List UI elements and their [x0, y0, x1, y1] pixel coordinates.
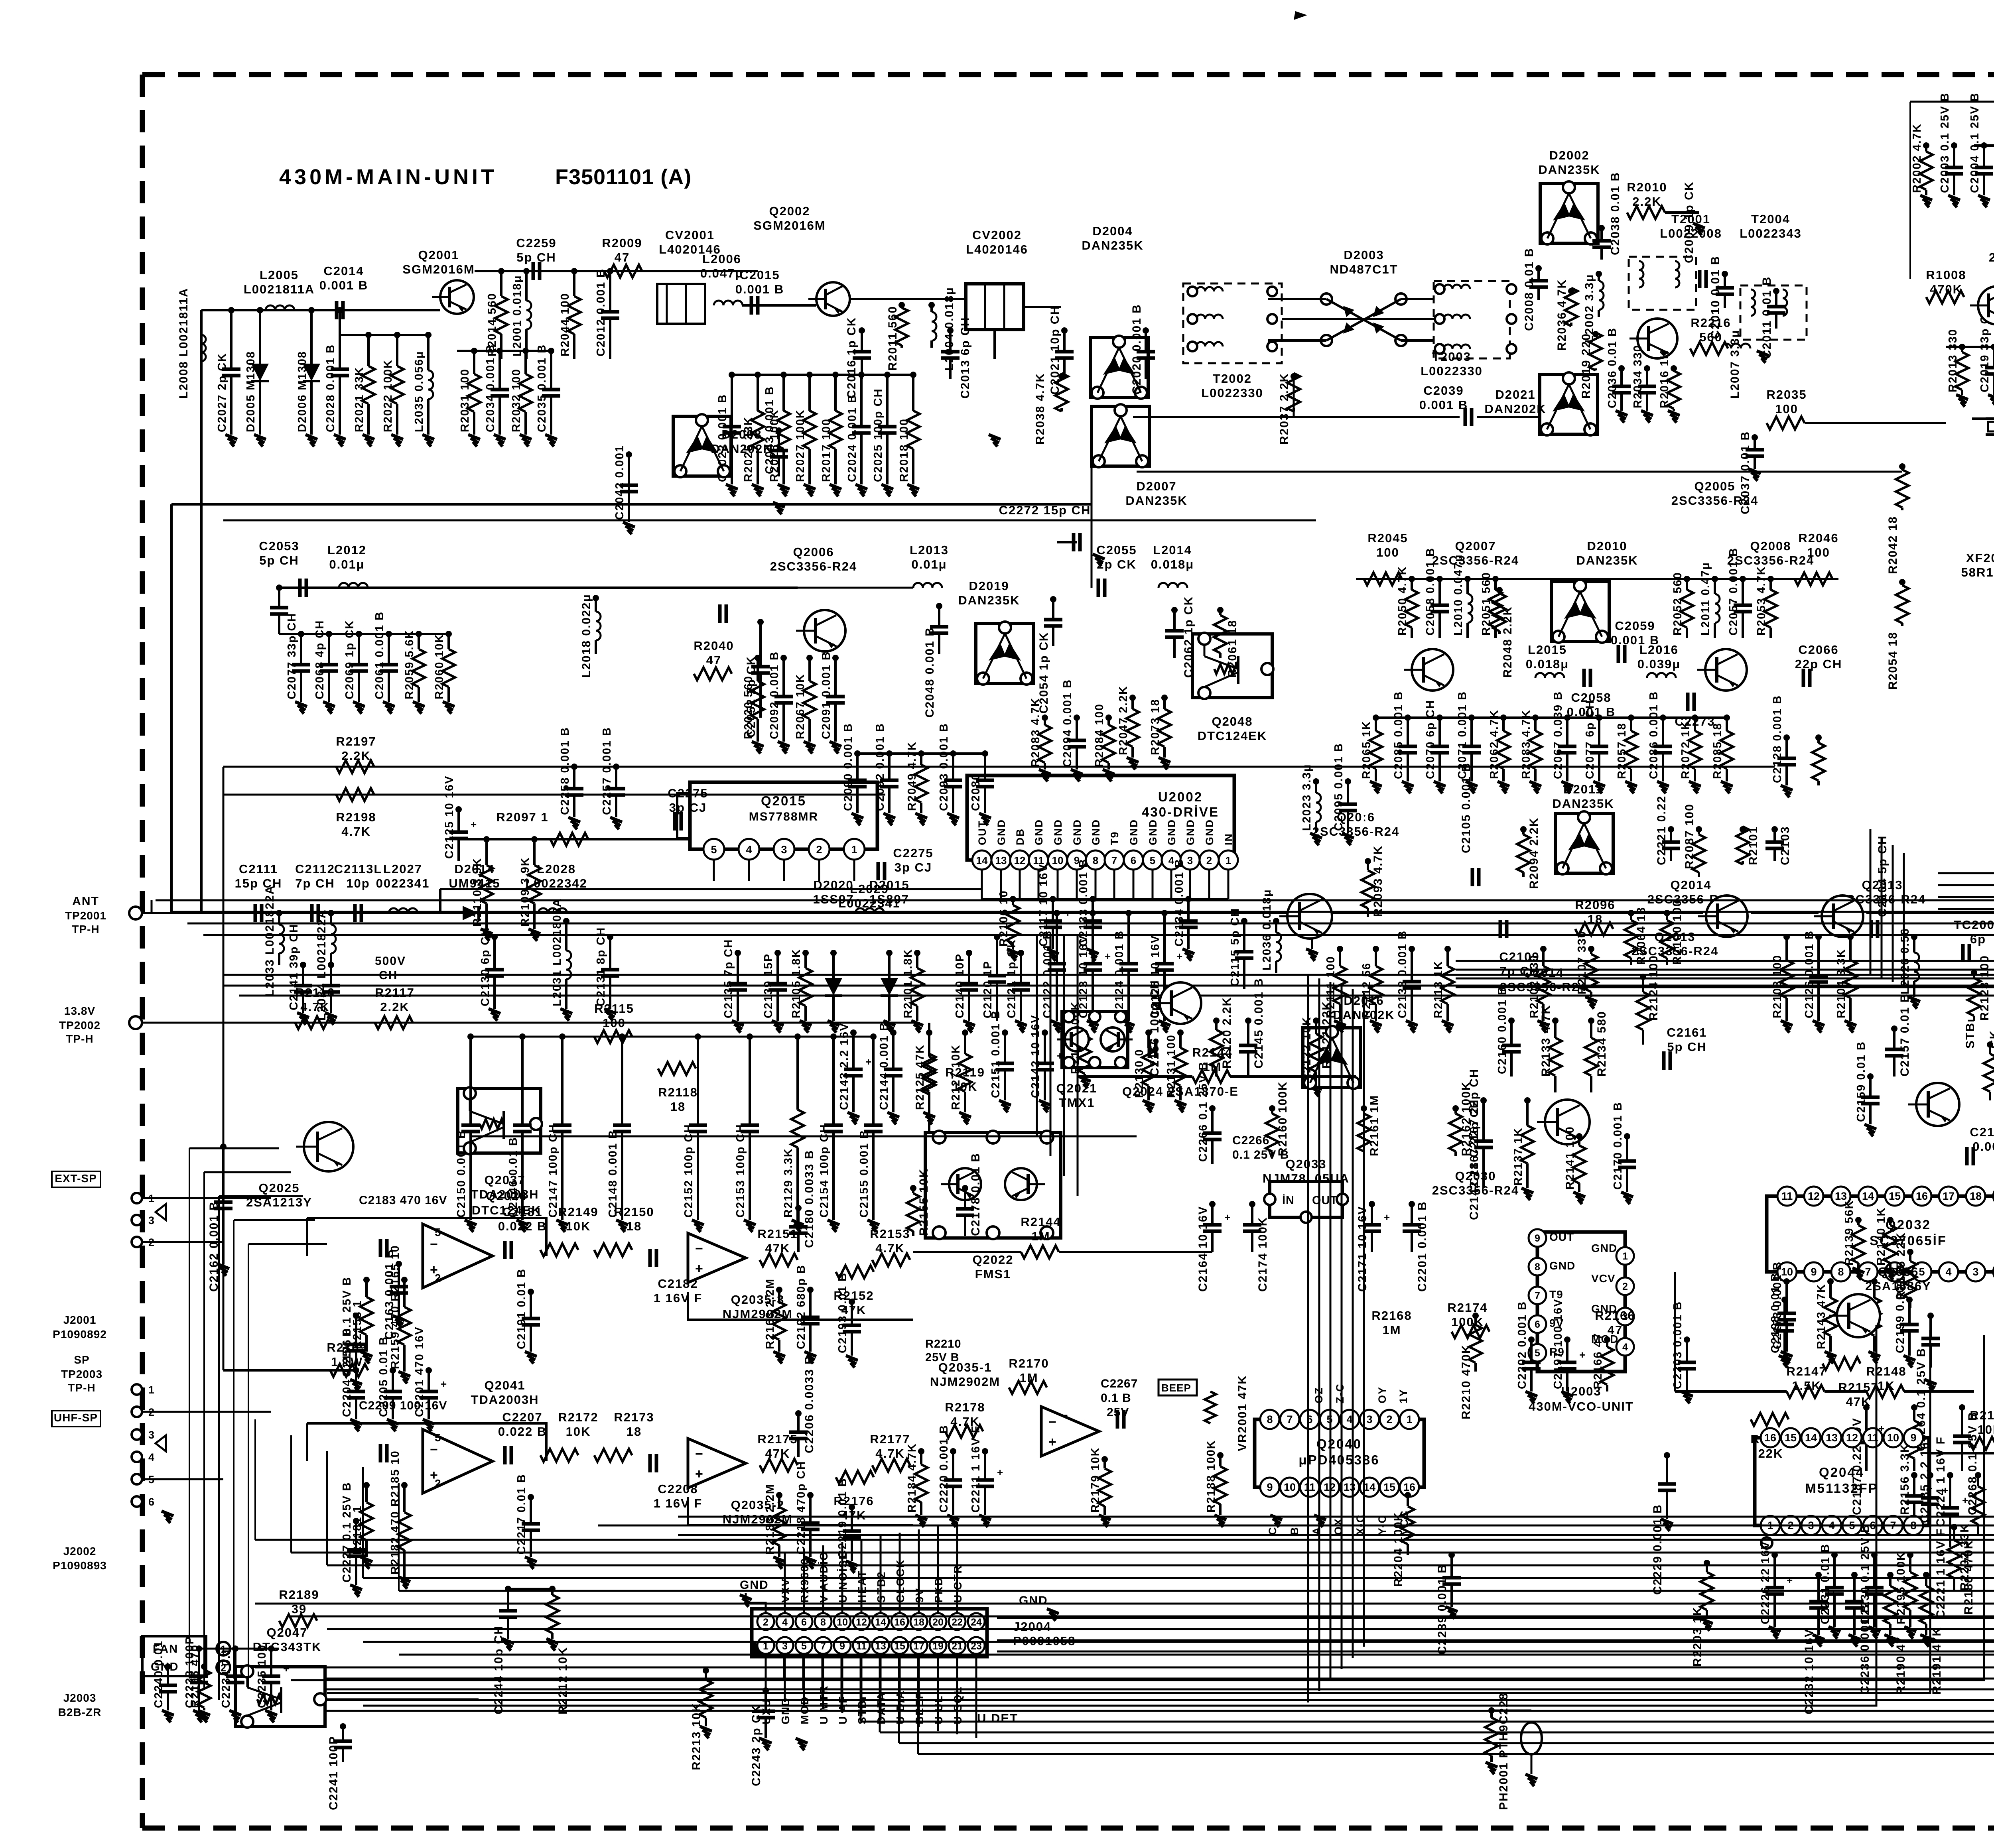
svg-text:R2034 330: R2034 330 [1631, 344, 1644, 408]
svg-text:C2014: C2014 [323, 264, 364, 278]
svg-text:0.018μ: 0.018μ [1151, 557, 1194, 571]
svg-text:TDA2003H: TDA2003H [471, 1393, 539, 1407]
svg-text:M51132FP: M51132FP [1805, 1481, 1878, 1496]
svg-text:GND: GND [1071, 819, 1083, 845]
svg-text:C2057 0.001 B: C2057 0.001 B [1727, 547, 1740, 636]
svg-text:4: 4 [1945, 1266, 1951, 1278]
svg-text:7: 7 [1111, 854, 1117, 866]
svg-text:R2144: R2144 [1021, 1215, 1061, 1229]
svg-text:R2002 4.7K: R2002 4.7K [1911, 123, 1923, 193]
svg-text:2SC3356-R24: 2SC3356-R24 [1727, 553, 1814, 567]
svg-text:430-DRİVE: 430-DRİVE [1142, 805, 1219, 819]
svg-text:R2166: R2166 [1595, 1309, 1635, 1323]
svg-text:DAN235K: DAN235K [1538, 163, 1600, 177]
svg-text:−: − [1048, 1415, 1056, 1430]
svg-text:Q2022: Q2022 [972, 1253, 1013, 1267]
svg-text:100: 100 [603, 1016, 626, 1030]
svg-text:2: 2 [816, 844, 822, 856]
svg-text:C2025 100p CH: C2025 100p CH [872, 388, 885, 482]
svg-text:Q2037: Q2037 [484, 1173, 525, 1187]
svg-text:Z-C: Z-C [1334, 1383, 1346, 1403]
svg-text:9: 9 [1910, 1432, 1916, 1444]
svg-text:R2009: R2009 [602, 236, 642, 250]
svg-text:15: 15 [1383, 1481, 1395, 1493]
svg-text:D2002: D2002 [1549, 148, 1589, 162]
svg-text:L2014: L2014 [1153, 543, 1192, 557]
svg-text:6: 6 [801, 1617, 807, 1628]
svg-text:−: − [430, 1237, 438, 1252]
svg-text:R2161 1M: R2161 1M [1368, 1095, 1381, 1156]
svg-text:ANT: ANT [72, 895, 99, 908]
svg-text:2SC3356-R24: 2SC3356-R24 [770, 559, 857, 573]
svg-text:R2072 1K: R2072 1K [1679, 720, 1692, 779]
svg-text:1 16V F: 1 16V F [654, 1496, 703, 1510]
svg-text:TDA2003H: TDA2003H [471, 1187, 539, 1201]
svg-text:3: 3 [1366, 1413, 1372, 1425]
svg-text:C2053: C2053 [259, 539, 299, 553]
svg-text:25V B: 25V B [925, 1351, 960, 1364]
svg-text:7: 7 [1287, 1413, 1293, 1425]
svg-text:R2097 1: R2097 1 [496, 810, 548, 824]
svg-text:L2005: L2005 [260, 268, 299, 282]
svg-text:SGM2016M: SGM2016M [402, 262, 475, 276]
svg-text:+: + [695, 1261, 703, 1276]
svg-text:L0022330: L0022330 [1460, 374, 1468, 375]
svg-text:R2144: R2144 [1192, 1045, 1232, 1059]
svg-text:C2182: C2182 [658, 1277, 698, 1291]
svg-text:C2150 0.001 B: C2150 0.001 B [455, 1130, 468, 1218]
svg-text:C2142 10 16V: C2142 10 16V [1029, 1015, 1042, 1098]
svg-text:L2018 0.022μ: L2018 0.022μ [580, 594, 593, 678]
svg-text:R2191 47K: R2191 47K [1930, 1627, 1943, 1694]
svg-text:R2016 1K: R2016 1K [1658, 350, 1671, 408]
svg-text:C2111: C2111 [239, 862, 278, 876]
svg-text:Q2014: Q2014 [1670, 878, 1711, 892]
svg-text:10: 10 [837, 1617, 848, 1628]
svg-text:R2150: R2150 [614, 1205, 654, 1219]
svg-text:3: 3 [148, 1214, 154, 1226]
svg-text:C2220 0.001 B: C2220 0.001 B [938, 1425, 950, 1513]
svg-text:C2035 0.001 B: C2035 0.001 B [536, 344, 548, 432]
svg-text:C2154 100p CH: C2154 100p CH [818, 1124, 831, 1218]
svg-text:C2128 0.001 B: C2128 0.001 B [1771, 695, 1784, 783]
svg-text:R2011 560: R2011 560 [886, 306, 899, 371]
svg-text:DB: DB [1014, 828, 1026, 845]
svg-text:B2B-ZR: B2B-ZR [58, 1706, 102, 1718]
svg-text:Q2015: Q2015 [761, 793, 806, 808]
svg-text:R2133 4.7K: R2133 4.7K [1539, 1005, 1553, 1077]
svg-text:0.039μ: 0.039μ [1637, 657, 1681, 671]
svg-text:R2046: R2046 [1798, 531, 1838, 545]
svg-text:R2060 10K: R2060 10K [433, 634, 446, 699]
svg-text:C2113L: C2113L [334, 862, 382, 876]
svg-text:500V: 500V [375, 955, 406, 968]
svg-text:Q2002: Q2002 [769, 204, 810, 218]
svg-text:C2145 0.001 B: C2145 0.001 B [1252, 978, 1265, 1069]
svg-text:18: 18 [627, 1219, 642, 1233]
svg-text:Q2048: Q2048 [1212, 714, 1253, 728]
svg-text:C2198 0.01 B: C2198 0.01 B [1769, 1272, 1782, 1353]
svg-text:C2069 1p CK: C2069 1p CK [343, 620, 356, 699]
svg-text:+: + [1224, 1211, 1230, 1223]
svg-text:C2209 100 16V: C2209 100 16V [359, 1399, 447, 1412]
svg-text:8: 8 [820, 1617, 826, 1628]
svg-text:CV2001: CV2001 [665, 228, 715, 242]
svg-text:A: A [1310, 1527, 1322, 1535]
svg-text:+: + [1579, 1349, 1585, 1361]
svg-text:+: + [1176, 950, 1182, 962]
svg-text:Q2047: Q2047 [266, 1626, 307, 1639]
svg-text:T2004: T2004 [1751, 212, 1790, 226]
svg-text:R2093 4.7K: R2093 4.7K [1371, 845, 1385, 917]
svg-text:R2115: R2115 [594, 1002, 634, 1016]
svg-text:R2166 47: R2166 47 [1592, 1332, 1604, 1389]
svg-text:0.001: 0.001 [1972, 1140, 1994, 1153]
svg-text:C2152 100p CH: C2152 100p CH [682, 1124, 695, 1218]
svg-text:C2193 0.01 B: C2193 0.01 B [836, 1272, 849, 1353]
svg-text:Q20ː6: Q20ː6 [1337, 810, 1375, 824]
svg-text:1: 1 [1226, 854, 1231, 866]
svg-text:DAN235K: DAN235K [1552, 797, 1614, 811]
svg-text:R2210 470K: R2210 470K [1460, 1344, 1473, 1419]
svg-text:C2221 0.22: C2221 0.22 [1655, 795, 1668, 865]
svg-text:L2033 L0021822A: L2033 L0021822A [263, 885, 276, 997]
svg-text:6: 6 [148, 1496, 154, 1508]
svg-text:L2028: L2028 [537, 862, 576, 876]
svg-text:10K: 10K [1978, 1423, 1994, 1437]
svg-text:2.2K: 2.2K [341, 749, 370, 763]
svg-text:R2168: R2168 [1371, 1309, 1412, 1323]
svg-text:DAN235K: DAN235K [1125, 494, 1187, 508]
svg-text:C2234 0.1: C2234 0.1 [220, 1647, 233, 1708]
svg-text:Q2035-2: Q2035-2 [731, 1498, 785, 1512]
svg-text:100: 100 [1807, 545, 1830, 559]
svg-text:25V: 25V [1107, 1406, 1129, 1419]
svg-text:R2109 3.9K: R2109 3.9K [519, 857, 532, 927]
svg-text:C2125 10 16V: C2125 10 16V [443, 775, 456, 859]
svg-text:R2044 100: R2044 100 [559, 293, 571, 356]
svg-text:5p CH: 5p CH [1667, 1040, 1707, 1054]
svg-text:C2092 0.001 B: C2092 0.001 B [768, 651, 781, 739]
svg-text:22p CH: 22p CH [1795, 657, 1842, 671]
svg-text:R2051 560: R2051 560 [1480, 572, 1493, 636]
svg-text:U DET: U DET [977, 1711, 1018, 1725]
svg-text:10: 10 [1052, 854, 1064, 866]
svg-text:U2002: U2002 [1158, 789, 1203, 804]
svg-text:STBı: STBı [1964, 1018, 1977, 1049]
svg-text:NJM2902M: NJM2902M [930, 1375, 1000, 1389]
svg-text:11: 11 [1304, 1481, 1316, 1493]
svg-text:0.018μ: 0.018μ [1526, 657, 1569, 671]
svg-text:R2178: R2178 [945, 1400, 985, 1414]
svg-text:+: + [695, 1466, 703, 1482]
svg-text:R2197: R2197 [336, 734, 376, 748]
svg-text:DAN202K: DAN202K [1484, 402, 1546, 416]
svg-text:L0022330: L0022330 [1201, 386, 1263, 400]
svg-text:R2147: R2147 [1786, 1364, 1827, 1378]
svg-text:C2024 0.001 B: C2024 0.001 B [846, 394, 859, 482]
svg-text:0.1 B: 0.1 B [1101, 1391, 1131, 1405]
svg-text:R2010: R2010 [1627, 180, 1667, 194]
svg-text:DTC343TK: DTC343TK [253, 1640, 322, 1654]
svg-text:DAN235K: DAN235K [1576, 553, 1638, 567]
svg-text:C: C [1267, 1527, 1279, 1535]
svg-text:R2182 470 R2185 10: R2182 470 R2185 10 [389, 1450, 402, 1574]
svg-text:C2148 0.001 B: C2148 0.001 B [607, 1130, 619, 1218]
svg-text:C2166: C2166 [1970, 1125, 1994, 1139]
svg-text:−: − [430, 1442, 438, 1457]
svg-text:47: 47 [706, 653, 721, 667]
svg-text:C2103: C2103 [1779, 826, 1792, 865]
svg-text:P1090893: P1090893 [53, 1559, 107, 1572]
svg-text:8: 8 [1093, 854, 1098, 866]
svg-text:Q2033: Q2033 [1285, 1157, 1326, 1171]
svg-text:C2174 100K: C2174 100K [1256, 1217, 1269, 1292]
svg-text:L2027: L2027 [383, 862, 422, 876]
svg-text:100: 100 [1376, 545, 1399, 559]
svg-text:D2007: D2007 [1136, 479, 1176, 493]
svg-text:1Y: 1Y [1397, 1389, 1409, 1403]
svg-text:R2192: R2192 [1970, 1408, 1994, 1422]
svg-text:R2189: R2189 [279, 1588, 319, 1602]
svg-text:14: 14 [1805, 1432, 1817, 1444]
svg-text:C2011 0.01 B: C2011 0.01 B [1760, 276, 1773, 359]
svg-text:2SC2714Y: 2SC2714Y [1989, 250, 1994, 264]
svg-text:C2230 0.1 25V B: C2230 0.1 25V B [1859, 1524, 1872, 1624]
svg-text:R2172: R2172 [558, 1410, 598, 1424]
svg-text:GND: GND [1166, 819, 1178, 845]
svg-text:C2080: C2080 [969, 773, 982, 811]
svg-text:R2139 56K: R2139 56K [1843, 1200, 1856, 1265]
svg-text:C2240 0.01: C2240 0.01 [152, 1640, 165, 1708]
svg-text:L2011 0.47μ: L2011 0.47μ [1699, 562, 1712, 636]
svg-text:C2275: C2275 [893, 846, 933, 860]
svg-text:2SC3356-R24: 2SC3356-R24 [1312, 825, 1399, 838]
svg-text:R2027 100K: R2027 100K [794, 409, 807, 482]
svg-text:5: 5 [1919, 1266, 1925, 1278]
svg-text:C2275: C2275 [668, 786, 708, 800]
svg-text:C2091 0.001 B: C2091 0.001 B [820, 651, 833, 739]
svg-text:C2159 0.01 B: C2159 0.01 B [1855, 1041, 1868, 1122]
svg-text:R2085 18: R2085 18 [1711, 722, 1724, 779]
svg-text:R2148: R2148 [1866, 1364, 1906, 1378]
svg-text:3: 3 [1972, 1266, 1978, 1278]
svg-text:C2042 0.001: C2042 0.001 [613, 445, 626, 520]
svg-text:5: 5 [711, 844, 717, 856]
svg-text:100K: 100K [1451, 1315, 1484, 1329]
svg-text:0.022 B: 0.022 B [498, 1425, 547, 1439]
svg-text:C2183 470 16V: C2183 470 16V [359, 1194, 447, 1207]
svg-text:DAN235K: DAN235K [958, 593, 1020, 607]
svg-text:R2047 2.2K: R2047 2.2K [1117, 685, 1130, 755]
svg-text:2: 2 [435, 1272, 441, 1284]
svg-text:R2013 330: R2013 330 [1947, 329, 1959, 392]
svg-text:OY: OY [1376, 1386, 1388, 1403]
svg-text:R2137 1K: R2137 1K [1512, 1127, 1525, 1186]
svg-text:R2083 4.7K: R2083 4.7K [1520, 709, 1533, 779]
svg-text:C2016 1p CK: C2016 1p CK [845, 317, 858, 399]
svg-text:7: 7 [1865, 1266, 1871, 1278]
svg-text:C2034 0.001 B: C2034 0.001 B [484, 344, 497, 432]
svg-text:D2010: D2010 [1587, 539, 1627, 553]
svg-text:IN: IN [1223, 833, 1235, 845]
svg-text:R2062 4.7K: R2062 4.7K [1488, 709, 1501, 779]
svg-text:L0022330: L0022330 [1421, 364, 1483, 378]
svg-text:R2184 4.7K: R2184 4.7K [906, 1443, 918, 1513]
svg-text:C2181: C2181 [502, 1205, 542, 1219]
svg-text:D2006 M1308: D2006 M1308 [296, 351, 309, 432]
svg-text:R2173: R2173 [614, 1410, 654, 1424]
svg-text:R2129 3.3K: R2129 3.3K [782, 1148, 795, 1218]
svg-text:TP-H: TP-H [72, 923, 99, 935]
svg-text:100: 100 [1775, 402, 1798, 416]
svg-text:5: 5 [435, 1226, 441, 1238]
svg-text:5: 5 [1150, 854, 1155, 866]
svg-text:0.01μ: 0.01μ [329, 557, 365, 571]
svg-text:OUT: OUT [976, 820, 988, 845]
svg-text:24: 24 [971, 1617, 982, 1628]
svg-text:9: 9 [1535, 1233, 1540, 1244]
svg-text:C2202 0.001 B: C2202 0.001 B [1516, 1301, 1529, 1389]
svg-text:C2143 2.2 16V: C2143 2.2 16V [838, 1023, 851, 1110]
svg-text:R2054 18: R2054 18 [1886, 632, 1899, 690]
svg-text:L2035 0.056μ: L2035 0.056μ [413, 350, 426, 432]
svg-text:C2061 0.001 B: C2061 0.001 B [373, 611, 386, 699]
svg-text:8: 8 [1838, 1266, 1844, 1278]
svg-text:2SC3356-R24: 2SC3356-R24 [1432, 553, 1519, 567]
svg-text:C2131 8p CH: C2131 8p CH [595, 927, 607, 1006]
svg-text:C2199 0.001 B: C2199 0.001 B [1894, 1265, 1907, 1353]
svg-text:D2005 M1308: D2005 M1308 [244, 351, 257, 432]
svg-text:R2174: R2174 [1447, 1301, 1488, 1315]
svg-text:1 16V F: 1 16V F [654, 1291, 703, 1305]
svg-text:+: + [865, 1056, 871, 1068]
svg-text:R2183 2.2M: R2183 2.2M [764, 1484, 776, 1555]
svg-text:Q2007: Q2007 [1455, 539, 1496, 553]
svg-text:0.01μ: 0.01μ [911, 557, 947, 571]
svg-text:18: 18 [670, 1100, 686, 1114]
svg-text:F3501101 (A): F3501101 (A) [555, 165, 692, 189]
svg-text:C2039: C2039 [1423, 384, 1464, 398]
svg-text:10p: 10p [346, 876, 370, 890]
svg-text:2: 2 [435, 1477, 441, 1490]
svg-text:10: 10 [1284, 1481, 1296, 1493]
svg-text:SP: SP [74, 1354, 89, 1366]
svg-text:1M: 1M [1031, 1229, 1050, 1243]
svg-text:18: 18 [913, 1617, 924, 1628]
svg-text:18: 18 [627, 1425, 642, 1439]
svg-text:4.7K: 4.7K [300, 1000, 329, 1014]
svg-text:R2105 1.8K: R2105 1.8K [790, 949, 803, 1018]
svg-text:C2203 0.001 B: C2203 0.001 B [1671, 1301, 1684, 1389]
svg-text:VCV: VCV [1591, 1272, 1616, 1285]
svg-text:R2143 47K: R2143 47K [1815, 1283, 1828, 1349]
svg-text:R2059 5.6K: R2059 5.6K [403, 630, 416, 699]
svg-text:J2001: J2001 [63, 1314, 97, 1326]
svg-text:Q2008: Q2008 [1750, 539, 1791, 553]
svg-text:L2010 0.047μ: L2010 0.047μ [1452, 554, 1465, 636]
svg-text:C2243 2p CK: C2243 2p CK [750, 1704, 763, 1786]
svg-text:R2188 100K: R2188 100K [1205, 1440, 1218, 1513]
svg-text:R2179 10K: R2179 10K [1089, 1447, 1102, 1513]
svg-text:R2156 3.3K: R2156 3.3K [1898, 1443, 1911, 1515]
svg-text:47: 47 [1608, 1323, 1623, 1337]
svg-text:TP2002: TP2002 [59, 1019, 100, 1031]
svg-text:C2094 0.001 B: C2094 0.001 B [1061, 679, 1074, 767]
svg-text:R2190 47: R2190 47 [1894, 1636, 1907, 1694]
svg-text:−: − [1061, 1409, 1068, 1422]
svg-text:XF2001: XF2001 [1966, 551, 1994, 565]
svg-text:10K: 10K [566, 1425, 591, 1439]
svg-text:47K: 47K [1846, 1395, 1871, 1409]
svg-text:C2201 470 16V: C2201 470 16V [413, 1326, 426, 1417]
svg-text:2: 2 [1622, 1281, 1628, 1292]
svg-text:R2032 100: R2032 100 [510, 368, 523, 432]
svg-text:Q2025: Q2025 [258, 1181, 299, 1195]
svg-text:12: 12 [1808, 1190, 1820, 1202]
svg-text:C2151 0.001 B: C2151 0.001 B [989, 1010, 1002, 1098]
svg-text:D2004: D2004 [1092, 224, 1133, 238]
svg-text:L2013: L2013 [910, 543, 949, 557]
svg-text:13: 13 [1826, 1432, 1838, 1444]
svg-text:Q2005: Q2005 [1694, 479, 1735, 493]
svg-text:TP-H: TP-H [68, 1382, 95, 1394]
svg-text:R2163 2.2M: R2163 2.2M [764, 1278, 776, 1349]
svg-text:+: + [1048, 1435, 1056, 1450]
svg-text:C2009 1p CK: C2009 1p CK [1683, 181, 1696, 263]
svg-text:12: 12 [1014, 854, 1026, 866]
svg-text:D2008: D2008 [721, 427, 762, 441]
svg-text:L2031 L0021803A: L2031 L0021803A [551, 898, 564, 1006]
svg-text:R2038 4.7K: R2038 4.7K [1034, 373, 1047, 445]
svg-text:C2059: C2059 [1615, 619, 1655, 633]
svg-text:5: 5 [435, 1431, 441, 1444]
svg-text:R2052 560: R2052 560 [1671, 572, 1684, 636]
svg-text:C2161: C2161 [1667, 1025, 1707, 1039]
svg-text:Q2013: Q2013 [1654, 930, 1695, 944]
svg-text:VR2001 47K: VR2001 47K [1236, 1375, 1249, 1451]
svg-text:DTC124EK: DTC124EK [1198, 729, 1267, 743]
svg-text:C2038 0.01 B: C2038 0.01 B [1609, 172, 1622, 255]
svg-text:+: + [1962, 1494, 1968, 1506]
svg-text:L4020146: L4020146 [966, 242, 1028, 256]
svg-text:R2155 10K: R2155 10K [917, 1168, 930, 1236]
svg-text:D2019: D2019 [969, 579, 1009, 593]
svg-text:C2121 1p CK: C2121 1p CK [1005, 939, 1018, 1018]
svg-text:R2083 4.7K: R2083 4.7K [1029, 697, 1042, 767]
svg-text:TC2001: TC2001 [1954, 918, 1994, 932]
svg-text:R2022 100K: R2022 100K [382, 359, 394, 432]
svg-text:−: − [695, 1447, 703, 1462]
svg-text:C2133 0.001 B: C2133 0.001 B [1077, 858, 1090, 947]
svg-text:C2171 10 16V: C2171 10 16V [1356, 1206, 1369, 1292]
svg-text:L0021811A: L0021811A [244, 282, 315, 296]
svg-text:DAN235K: DAN235K [1082, 238, 1143, 252]
svg-text:C2208: C2208 [658, 1482, 698, 1496]
svg-text:C2205 0.01 B: C2205 0.01 B [377, 1336, 390, 1417]
svg-text:10: 10 [1887, 1432, 1899, 1444]
svg-text:2.2K: 2.2K [380, 1000, 409, 1014]
svg-text:R2045: R2045 [1367, 531, 1408, 545]
svg-text:L2007 3.3μ: L2007 3.3μ [1728, 330, 1742, 399]
svg-text:R2196 470: R2196 470 [189, 1644, 201, 1708]
svg-text:18: 18 [1970, 1190, 1982, 1202]
svg-text:L2012: L2012 [327, 543, 366, 557]
svg-text:4: 4 [782, 1617, 788, 1628]
svg-text:R2104 3.3K: R2104 3.3K [1835, 949, 1848, 1018]
svg-text:6: 6 [1131, 854, 1136, 866]
svg-text:B: B [1289, 1527, 1300, 1535]
